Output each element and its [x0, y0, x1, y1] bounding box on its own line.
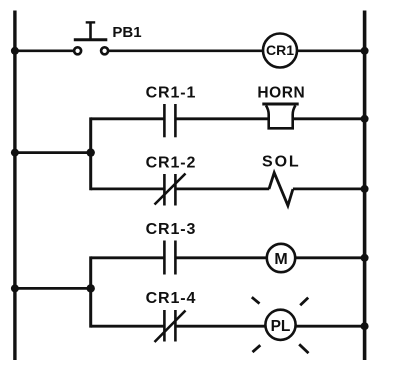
wire rung2 left — [91, 117, 165, 120]
junction dot left rail branch2 — [11, 284, 19, 292]
wire rung1 right — [298, 49, 364, 52]
wire rung4 left — [91, 256, 165, 259]
junction dot right rail rung1 — [361, 47, 369, 55]
wire rung4 middle — [175, 256, 266, 259]
wire rung5 right — [296, 325, 364, 328]
wire branch1 vertical — [89, 117, 92, 190]
left rail — [13, 11, 16, 361]
svg-text:CR1-1: CR1-1 — [146, 85, 197, 102]
svg-text:SOL: SOL — [262, 154, 301, 171]
svg-text:PL: PL — [271, 318, 291, 335]
contact CR1-1 (NO) — [164, 104, 175, 137]
wire rung1 middle — [108, 49, 262, 52]
wire rung2 middle — [175, 117, 268, 120]
right rail — [363, 11, 367, 361]
junction dot right rail rung3 — [361, 185, 369, 193]
svg-text:M: M — [274, 251, 287, 268]
junction dot branch1 — [87, 148, 95, 156]
solenoid SOL — [269, 173, 293, 206]
junction dot left rail rung1 — [11, 47, 19, 55]
contact CR1-3 (NO) — [164, 241, 175, 275]
pushbutton PB1 — [74, 22, 108, 54]
wire rung3 right — [293, 187, 364, 190]
wire rung2 right — [293, 117, 364, 120]
horn HORN — [262, 104, 298, 128]
wire rung1 left — [15, 49, 74, 52]
junction dot left rail branch1 — [11, 149, 19, 157]
junction dot branch2 — [87, 284, 95, 292]
junction dot right rail rung5 — [361, 322, 369, 330]
wire rung3 middle — [175, 187, 269, 190]
wire rung4 right — [296, 256, 364, 259]
svg-text:PB1: PB1 — [112, 24, 141, 41]
motor coil M — [267, 244, 295, 272]
junction dot right rail rung2 — [361, 115, 369, 123]
svg-text:CR1-4: CR1-4 — [146, 290, 197, 307]
svg-text:HORN: HORN — [257, 84, 305, 101]
pilot light PL — [265, 310, 295, 340]
wire rung5 left — [91, 325, 165, 328]
junction dot right rail rung4 — [361, 254, 369, 262]
contact CR1-4 (NC) — [155, 310, 186, 342]
pilot light rays — [252, 297, 309, 353]
wire rung3 left — [91, 187, 165, 190]
wire branch2 vertical — [89, 256, 92, 327]
svg-text:CR1: CR1 — [266, 42, 294, 58]
wire stub branch1 — [15, 151, 92, 154]
svg-text:CR1-2: CR1-2 — [146, 154, 197, 171]
coil CR1 — [263, 34, 297, 68]
svg-text:CR1-3: CR1-3 — [146, 221, 197, 238]
wire stub branch2 — [15, 287, 92, 290]
contact CR1-2 (NC) — [155, 174, 186, 206]
wire rung5 middle — [175, 325, 265, 328]
